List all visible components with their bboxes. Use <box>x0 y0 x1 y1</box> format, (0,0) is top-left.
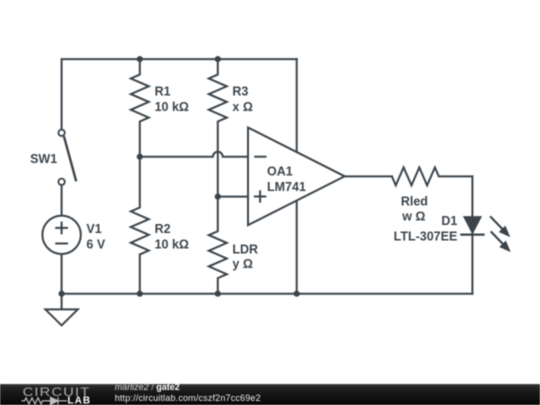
resistor Rled <box>392 167 473 185</box>
svg-text:Rled: Rled <box>401 194 428 208</box>
junction node bottom op-amp <box>294 291 300 297</box>
svg-text:10 kΩ: 10 kΩ <box>155 238 189 252</box>
wire bottom rail <box>62 293 473 295</box>
ground <box>45 294 77 326</box>
op-amp output wire <box>345 175 392 177</box>
footer bar <box>0 384 540 405</box>
svg-text:x Ω: x Ω <box>232 100 252 114</box>
svg-text:10 kΩ: 10 kΩ <box>155 100 189 114</box>
junction node non-inverting <box>215 194 221 200</box>
LED light arrow 2 <box>491 231 510 251</box>
op-amp OA1 <box>248 128 345 226</box>
footer logo symbol <box>22 397 68 404</box>
svg-text:LDR: LDR <box>232 242 258 256</box>
svg-text:R2: R2 <box>155 222 171 236</box>
wire op-amp V+ pin <box>296 59 298 153</box>
wire switch to V1 <box>61 185 63 216</box>
switch SW1 <box>58 130 76 185</box>
svg-text:OA1: OA1 <box>267 165 293 179</box>
svg-text:http://circuitlab.com/cszf2n7c: http://circuitlab.com/cszf2n7cc69e2 <box>115 393 261 403</box>
junction node inverting <box>137 154 143 160</box>
svg-text:D1: D1 <box>441 214 457 228</box>
svg-text:6 V: 6 V <box>86 238 105 252</box>
resistor R3 <box>209 59 227 197</box>
wire LED column <box>471 176 473 293</box>
svg-text:R1: R1 <box>155 85 171 99</box>
wire top rail <box>62 59 297 130</box>
svg-text:R3: R3 <box>232 85 248 99</box>
wire non-inverting input <box>218 196 248 198</box>
svg-text:SW1: SW1 <box>30 152 57 166</box>
wire inverting input with hop <box>140 152 248 157</box>
svg-text:w Ω: w Ω <box>401 209 425 223</box>
svg-text:V1: V1 <box>86 222 101 236</box>
junction node top R1 <box>137 56 143 62</box>
svg-text:LM741: LM741 <box>267 180 306 194</box>
LED D1 <box>460 216 484 235</box>
resistor LDR <box>209 197 227 294</box>
LED light arrow 1 <box>490 216 509 236</box>
junction node top R3 <box>215 56 221 62</box>
svg-text:y Ω: y Ω <box>232 257 252 271</box>
junction node bottom LDR <box>215 291 221 297</box>
wire op-amp V- pin <box>296 200 298 294</box>
junction node ground <box>59 291 65 297</box>
svg-text:marlize2 / gate2: marlize2 / gate2 <box>115 382 180 392</box>
footer logo CIRCUIT <box>23 385 91 398</box>
resistor R2 <box>131 157 149 294</box>
svg-text:LTL-307EE: LTL-307EE <box>394 230 458 244</box>
wire V1 bottom lead <box>61 254 63 294</box>
resistor R1 <box>131 59 149 157</box>
voltage source V1 <box>42 216 80 254</box>
junction node bottom R2 <box>137 291 143 297</box>
svg-text:LAB: LAB <box>68 396 92 405</box>
